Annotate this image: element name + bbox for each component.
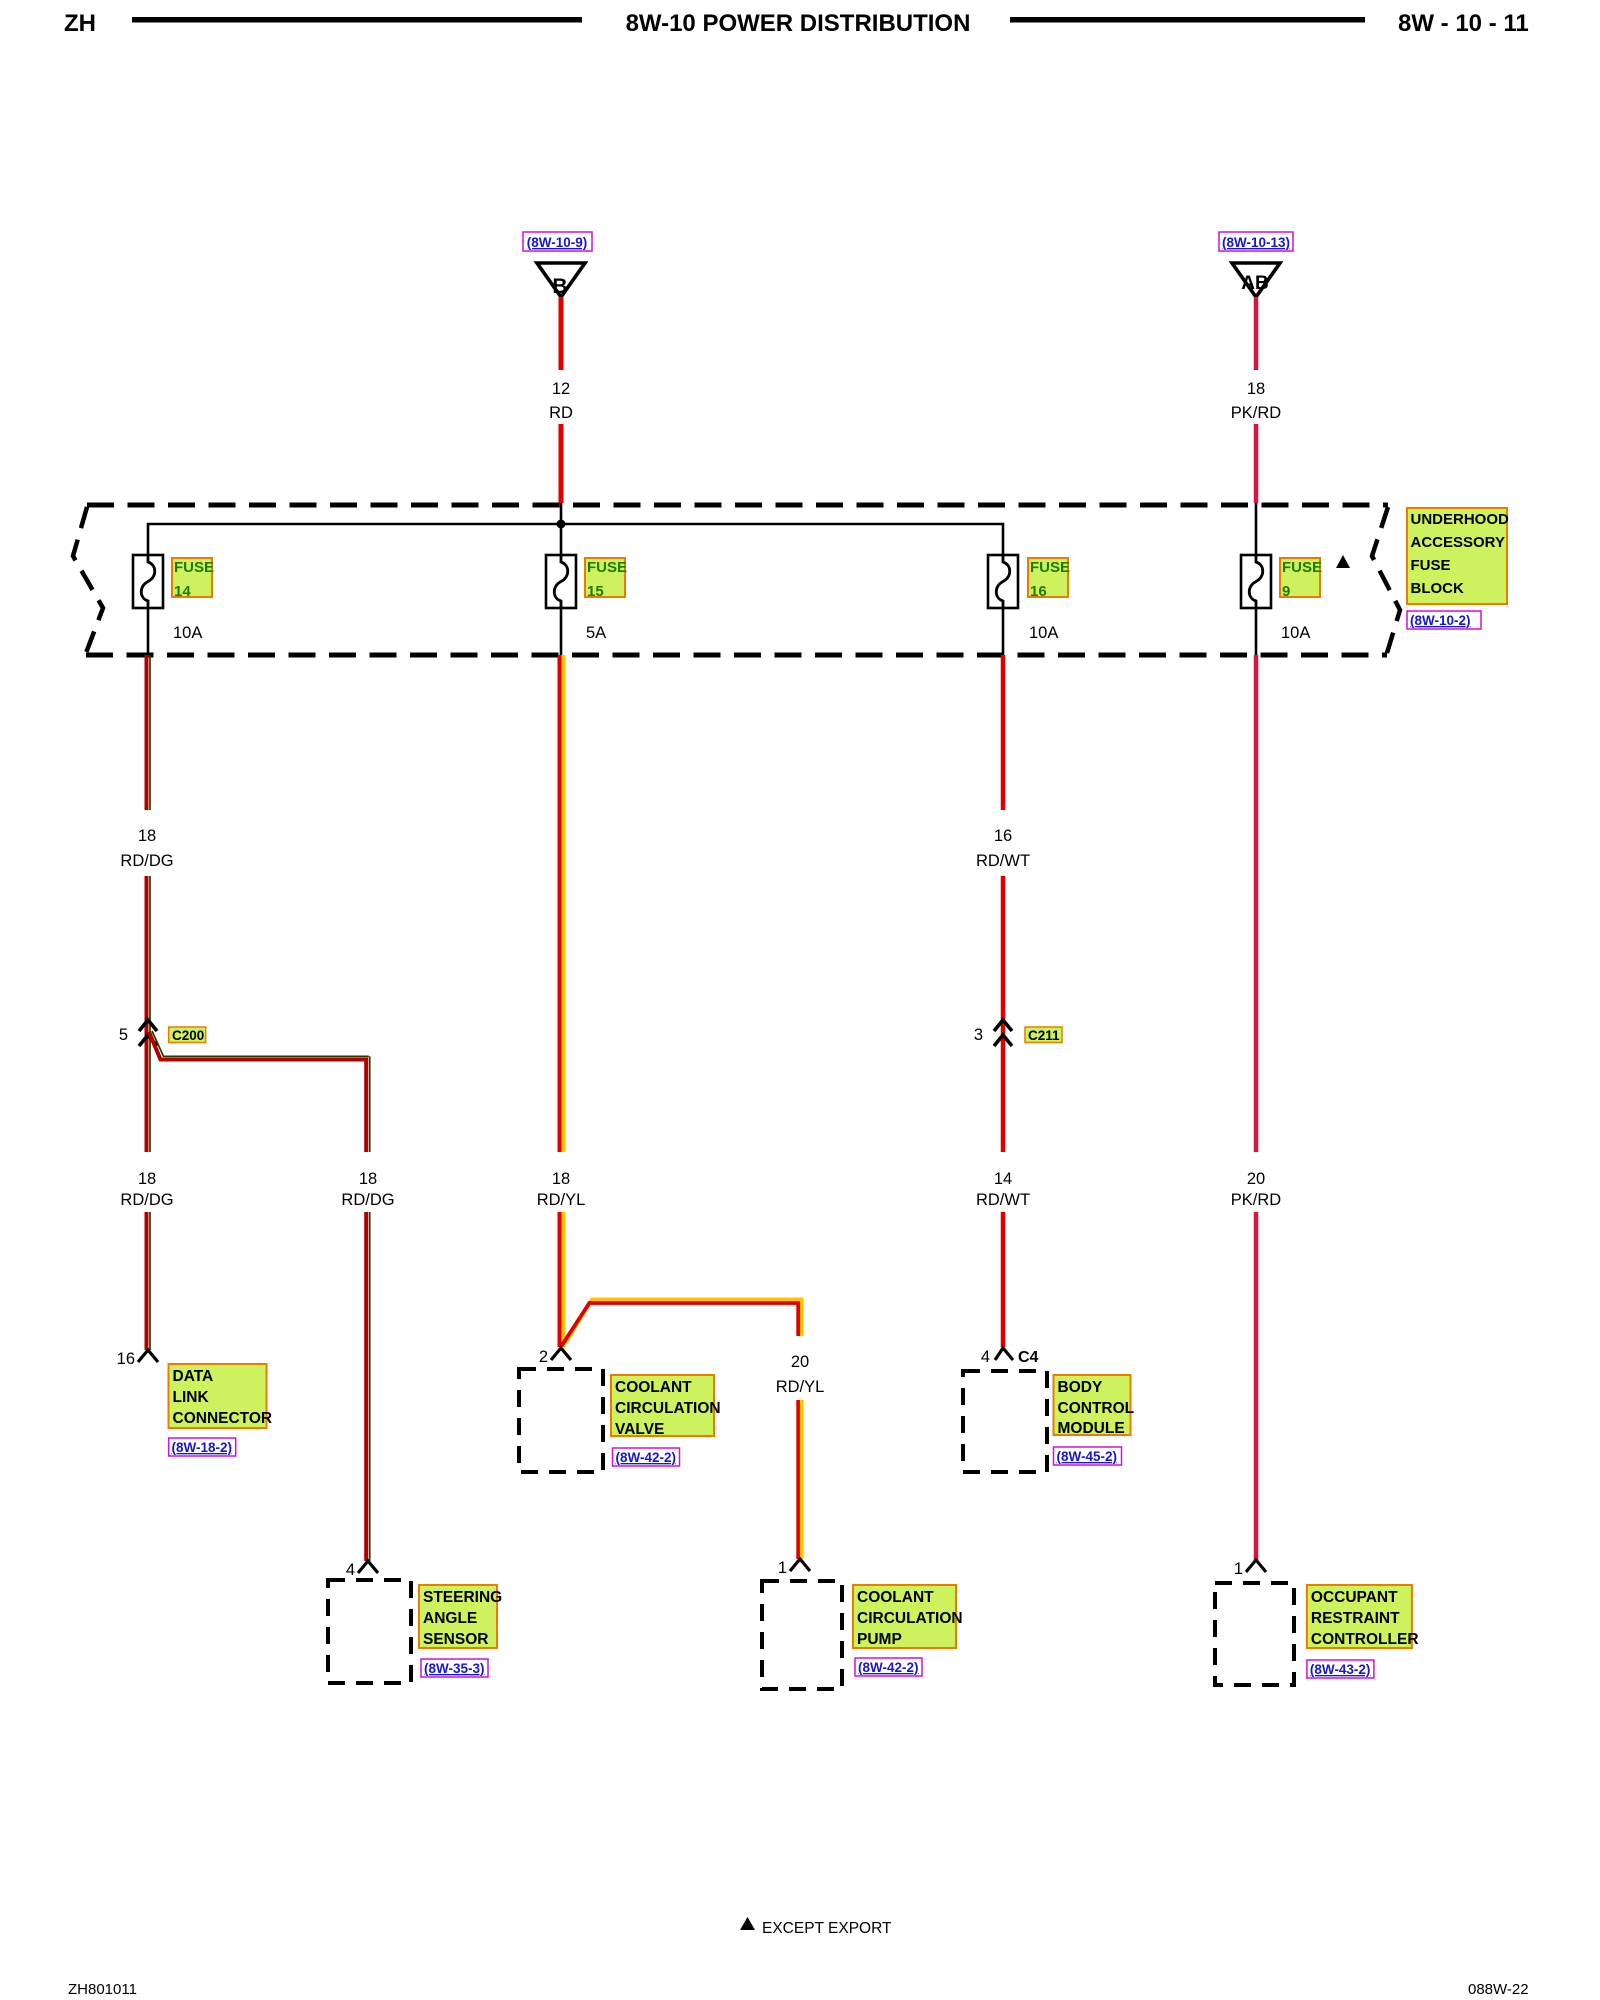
wire label 18 RD/YL [537, 1170, 586, 1209]
svg-text:(8W-10-2): (8W-10-2) [1410, 613, 1471, 628]
wire RD from B (upper) [559, 297, 564, 370]
bus junction node [557, 520, 566, 529]
svg-text:3: 3 [974, 1026, 983, 1044]
fuse F9 label [1280, 558, 1322, 600]
data link connector label [169, 1364, 273, 1428]
svg-text:UNDERHOOD: UNDERHOOD [1411, 511, 1510, 528]
body control module label [1054, 1375, 1135, 1437]
svg-text:PUMP: PUMP [857, 1631, 902, 1648]
svg-text:(8W-42-2): (8W-42-2) [858, 1660, 919, 1675]
svg-text:5: 5 [119, 1026, 128, 1044]
svg-text:4: 4 [346, 1561, 355, 1579]
connector triangle B [537, 263, 585, 298]
terminal 1 of coolant circulation pump [778, 1559, 810, 1577]
connector C211 label [1025, 1027, 1062, 1043]
connector C211 symbol [994, 1020, 1012, 1046]
link 8W-10-2 [1407, 611, 1481, 629]
coolant circulation valve label [611, 1375, 721, 1438]
terminal 4 of steering angle sensor [346, 1561, 378, 1579]
wire RD/DG branch lower to SAS [366, 1212, 370, 1561]
terminal 16 of data link connector [117, 1350, 158, 1368]
wire RD/WT mid [1001, 876, 1006, 1152]
fuse F15 [546, 555, 576, 608]
wire RD/YL fuse15 output [560, 655, 564, 1152]
svg-text:CONNECTOR: CONNECTOR [173, 1410, 273, 1427]
wire label 18 RD/DG lower [120, 1170, 173, 1209]
svg-text:16: 16 [994, 827, 1012, 845]
terminal 1 of occupant restraint controller [1234, 1560, 1266, 1578]
svg-text:18: 18 [359, 1170, 377, 1188]
svg-text:COOLANT: COOLANT [615, 1379, 692, 1396]
svg-text:CONTROL: CONTROL [1058, 1400, 1135, 1417]
svg-text:10A: 10A [1281, 624, 1310, 642]
terminal 2 of coolant circulation valve [539, 1348, 571, 1366]
svg-text:FUSE: FUSE [174, 559, 214, 576]
svg-text:RD/YL: RD/YL [776, 1378, 825, 1396]
connector C200 symbol [139, 1020, 157, 1046]
svg-text:PK/RD: PK/RD [1231, 1191, 1282, 1209]
header rule right [1010, 17, 1365, 23]
svg-text:LINK: LINK [173, 1389, 210, 1406]
link 8W-45-2 [1054, 1447, 1122, 1465]
svg-text:C200: C200 [172, 1028, 204, 1043]
svg-text:18: 18 [138, 827, 156, 845]
svg-text:18: 18 [552, 1170, 570, 1188]
svg-text:FUSE: FUSE [1282, 559, 1322, 576]
wire RD/YL branch to pump [562, 1299, 802, 1346]
svg-text:FUSE: FUSE [587, 559, 627, 576]
wire RD/WT fuse16 output upper [1001, 655, 1006, 810]
link 8W-10-9 [523, 232, 592, 251]
svg-text:5A: 5A [586, 624, 606, 642]
fuse F9 lower lead [1255, 608, 1258, 655]
fuse block bottom dashed border [86, 653, 1387, 658]
svg-text:2: 2 [539, 1348, 548, 1366]
connector C200 label [169, 1027, 206, 1043]
svg-text:(8W-35-3): (8W-35-3) [424, 1661, 485, 1676]
fuse F16 [988, 555, 1018, 608]
svg-text:8W - 10 - 11: 8W - 10 - 11 [1398, 10, 1529, 37]
wire RD/YL to valve [560, 1212, 564, 1347]
steering angle sensor box [328, 1580, 411, 1683]
wire label 16 RD/WT [976, 827, 1030, 870]
link 8W-18-2 [169, 1438, 236, 1456]
wire PK/RD from AB (lower) [1254, 424, 1259, 503]
occupant restraint controller label [1307, 1585, 1419, 1648]
body control module box [963, 1371, 1047, 1472]
svg-text:AB: AB [1241, 273, 1268, 294]
svg-text:9: 9 [1282, 583, 1290, 600]
svg-text:RD/WT: RD/WT [976, 852, 1030, 870]
fuse block top dashed border [87, 503, 1388, 508]
wire label 18 RD/DG branch [341, 1170, 394, 1209]
svg-text:18: 18 [138, 1170, 156, 1188]
wire RD/DG branch to steering angle sensor [149, 1031, 370, 1152]
svg-text:RD/WT: RD/WT [976, 1191, 1030, 1209]
wire RD/DG to DLC lower [147, 1212, 151, 1350]
svg-text:MODULE: MODULE [1058, 1420, 1125, 1437]
svg-text:18: 18 [1247, 380, 1265, 398]
terminal 4 C4 of body control module [981, 1348, 1039, 1366]
wire PK/RD to ORC [1254, 1212, 1259, 1560]
fuse 9 feed wire [1255, 503, 1258, 555]
wire label 20 PK/RD [1231, 1170, 1282, 1209]
svg-text:EXCEPT EXPORT: EXCEPT EXPORT [762, 1920, 892, 1937]
svg-text:16: 16 [117, 1350, 135, 1368]
fuse block right jagged edge [1372, 507, 1400, 653]
occupant restraint controller box [1215, 1583, 1294, 1685]
svg-text:CIRCULATION: CIRCULATION [615, 1400, 721, 1417]
svg-text:STEERING: STEERING [423, 1589, 502, 1606]
wire RD/DG fuse14 output mid [147, 876, 151, 1152]
svg-text:COOLANT: COOLANT [857, 1589, 934, 1606]
svg-text:FUSE: FUSE [1030, 559, 1070, 576]
wire RD from B (lower) [559, 424, 564, 503]
fuse F14 [133, 555, 163, 608]
steering angle sensor label [419, 1585, 502, 1648]
svg-text:FUSE: FUSE [1411, 557, 1451, 574]
svg-text:RD/DG: RD/DG [341, 1191, 394, 1209]
svg-text:(8W-18-2): (8W-18-2) [172, 1440, 233, 1455]
coolant circulation valve box [519, 1369, 603, 1472]
svg-text:ANGLE: ANGLE [423, 1610, 477, 1627]
svg-text:088W-22: 088W-22 [1468, 1981, 1529, 1998]
svg-text:12: 12 [552, 380, 570, 398]
fuse F16 lower lead [1002, 608, 1005, 655]
link 8W-10-13 [1219, 232, 1293, 251]
underhood accessory fuse block label [1407, 508, 1509, 604]
svg-text:DATA: DATA [173, 1368, 214, 1385]
coolant circulation pump box [762, 1581, 842, 1689]
svg-text:(8W-10-13): (8W-10-13) [1222, 235, 1290, 250]
svg-text:CIRCULATION: CIRCULATION [857, 1610, 963, 1627]
wire label 18 PK/RD [1231, 380, 1282, 422]
svg-text:1: 1 [778, 1559, 787, 1577]
coolant circulation pump label [853, 1585, 963, 1648]
svg-text:RD/DG: RD/DG [120, 1191, 173, 1209]
svg-text:CONTROLLER: CONTROLLER [1311, 1631, 1419, 1648]
svg-text:OCCUPANT: OCCUPANT [1311, 1589, 1398, 1606]
fuse F15 label [585, 558, 627, 600]
fuse block left jagged edge [73, 507, 103, 653]
svg-text:1: 1 [1234, 1560, 1243, 1578]
svg-text:RESTRAINT: RESTRAINT [1311, 1610, 1400, 1627]
svg-text:(8W-42-2): (8W-42-2) [616, 1450, 677, 1465]
link 8W-43-2 [1307, 1660, 1374, 1678]
svg-text:(8W-10-9): (8W-10-9) [527, 235, 588, 250]
svg-text:RD/YL: RD/YL [537, 1191, 586, 1209]
svg-text:10A: 10A [173, 624, 202, 642]
svg-text:C211: C211 [1028, 1028, 1060, 1043]
svg-text:VALVE: VALVE [615, 1421, 664, 1438]
wire label 12 RD [549, 380, 573, 422]
svg-text:PK/RD: PK/RD [1231, 404, 1282, 422]
header rule left [132, 17, 582, 23]
svg-text:C4: C4 [1018, 1349, 1039, 1366]
bus wire inside fuse block [148, 524, 1003, 555]
fuse F9 except-export marker [1336, 555, 1350, 568]
wire RD/YL pump lower [798, 1400, 802, 1559]
fuse F16 label [1028, 558, 1070, 600]
svg-text:B: B [552, 275, 567, 298]
svg-text:15: 15 [587, 583, 604, 600]
wire PK/RD fuse9 output [1254, 655, 1259, 1152]
link 8W-42-2 pump [855, 1658, 922, 1676]
fuse F9 [1241, 555, 1271, 608]
footnote except export [740, 1917, 892, 1937]
link 8W-42-2 valve [613, 1448, 680, 1466]
fuse F15 lower lead [560, 608, 563, 655]
wire label 18 RD/DG upper [120, 827, 173, 870]
wire RD/WT to BCM [1001, 1212, 1006, 1347]
svg-text:14: 14 [994, 1170, 1012, 1188]
link 8W-35-3 [421, 1659, 488, 1677]
svg-text:20: 20 [791, 1353, 809, 1371]
svg-text:RD/DG: RD/DG [120, 852, 173, 870]
svg-text:10A: 10A [1029, 624, 1058, 642]
svg-text:(8W-43-2): (8W-43-2) [1310, 1662, 1371, 1677]
svg-text:14: 14 [174, 583, 191, 600]
svg-text:ZH801011: ZH801011 [68, 1981, 137, 1998]
svg-text:SENSOR: SENSOR [423, 1631, 488, 1648]
wire PK/RD from AB (upper) [1254, 297, 1259, 370]
svg-text:16: 16 [1030, 583, 1047, 600]
svg-text:ZH: ZH [64, 10, 96, 37]
svg-text:20: 20 [1247, 1170, 1265, 1188]
svg-text:(8W-45-2): (8W-45-2) [1057, 1449, 1118, 1464]
svg-text:BLOCK: BLOCK [1411, 580, 1464, 597]
fuse F14 lower lead [147, 608, 150, 655]
svg-text:4: 4 [981, 1348, 990, 1366]
svg-text:RD: RD [549, 404, 573, 422]
svg-text:ACCESSORY: ACCESSORY [1411, 534, 1505, 551]
bus feed wire from B [560, 503, 563, 555]
wire label 20 RD/YL [776, 1353, 825, 1396]
connector triangle AB [1232, 263, 1280, 297]
wire RD/DG fuse14 output upper [147, 655, 151, 810]
svg-text:BODY: BODY [1058, 1379, 1103, 1396]
svg-text:8W-10 POWER DISTRIBUTION: 8W-10 POWER DISTRIBUTION [626, 10, 971, 37]
wire label 14 RD/WT [976, 1170, 1030, 1209]
fuse F14 label [172, 558, 214, 600]
